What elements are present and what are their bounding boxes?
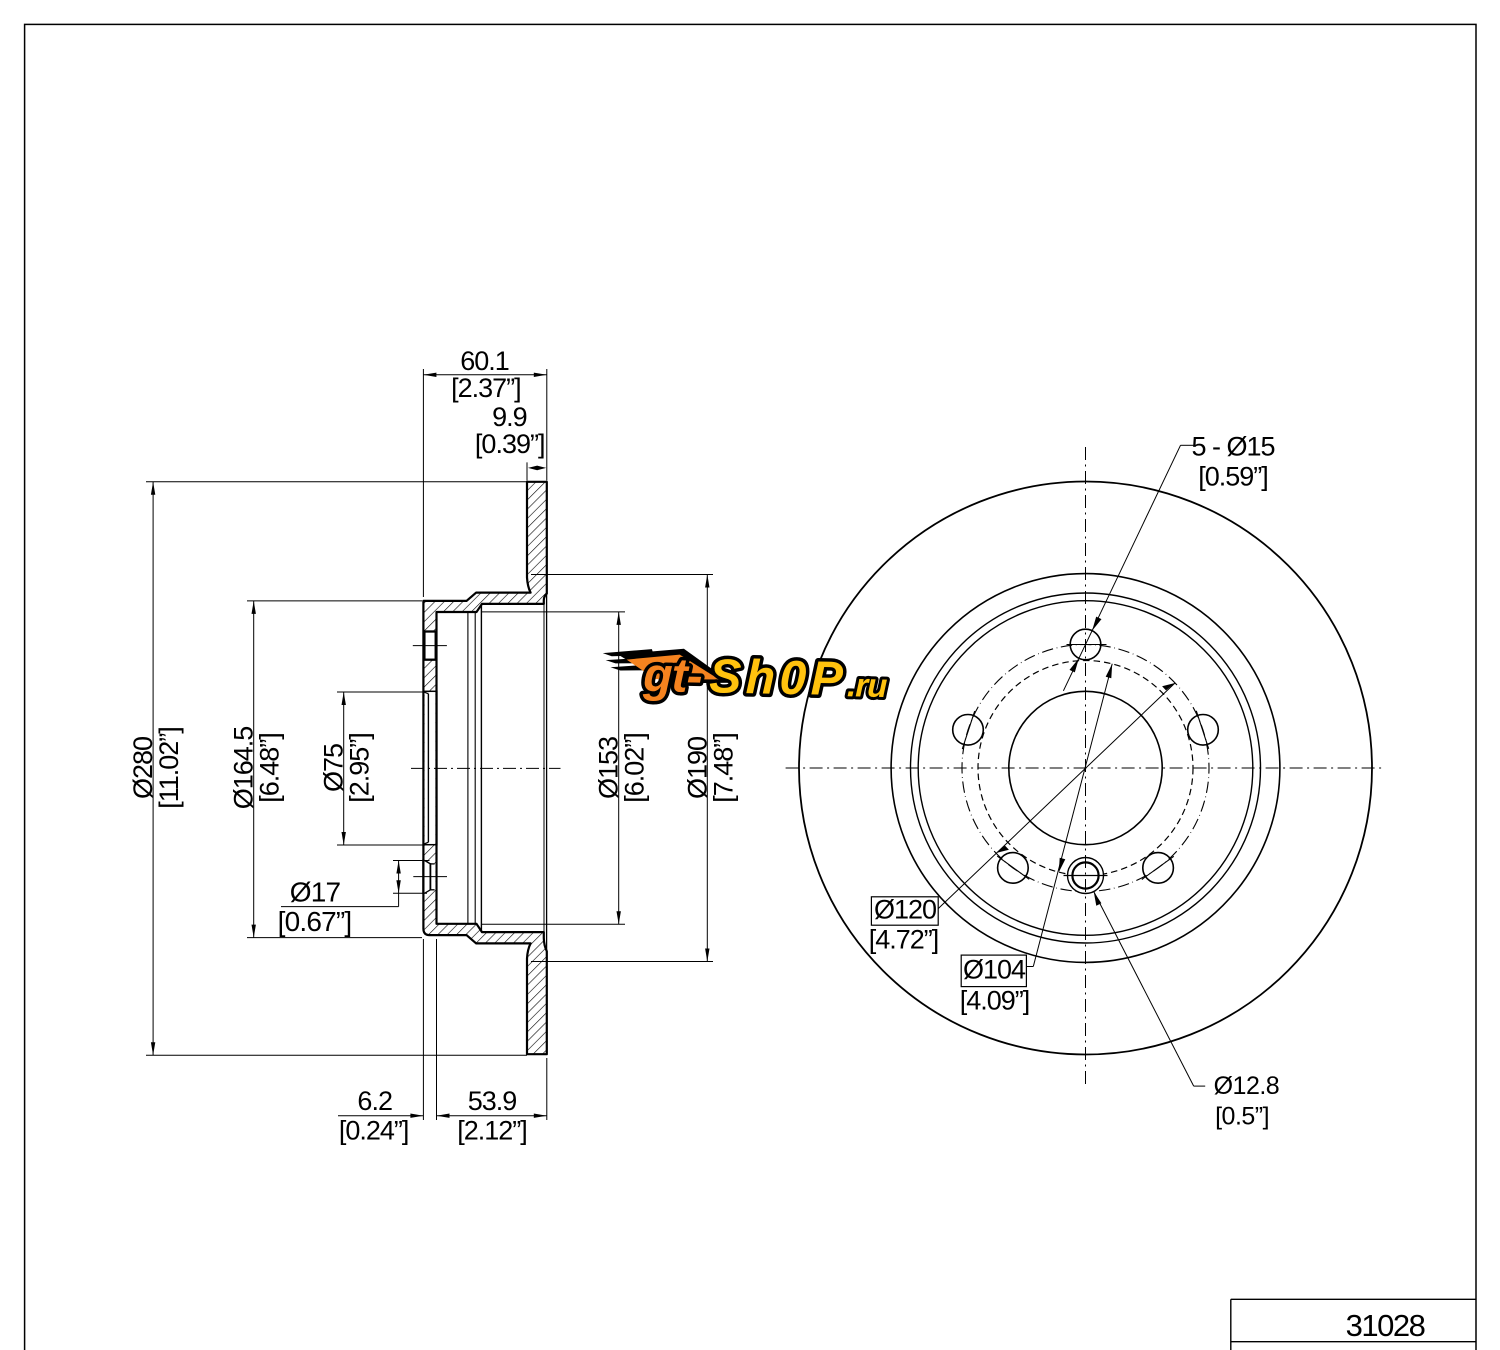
circle Ø104 (dashed) bbox=[978, 661, 1193, 876]
svg-text:[0.67”]: [0.67”] bbox=[278, 906, 352, 937]
svg-text:31028: 31028 bbox=[1346, 1308, 1425, 1343]
svg-text:6.2: 6.2 bbox=[357, 1086, 392, 1116]
svg-text:Ø17: Ø17 bbox=[290, 877, 341, 908]
bolt circle Ø120 (dash-dot) bbox=[962, 645, 1209, 892]
svg-text:[4.09”]: [4.09”] bbox=[960, 986, 1030, 1016]
dim Ø120 leader bbox=[869, 683, 1175, 955]
dim Ø153 bbox=[481, 612, 650, 924]
svg-text:[0.59”]: [0.59”] bbox=[1198, 462, 1268, 492]
svg-text:[2.37”]: [2.37”] bbox=[451, 373, 521, 403]
disc back projection lines bbox=[544, 594, 547, 952]
dim 60.1 top bbox=[423, 346, 546, 597]
svg-text:53.9: 53.9 bbox=[468, 1086, 517, 1116]
svg-text:Ø104: Ø104 bbox=[963, 955, 1026, 985]
svg-text:Sh0P: Sh0P bbox=[709, 650, 848, 706]
svg-text:5 - Ø15: 5 - Ø15 bbox=[1191, 432, 1274, 462]
dim 6.2 / 53.9 bottom bbox=[338, 939, 547, 1146]
bolt hole center ticks bbox=[962, 645, 1208, 880]
svg-text:[11.02”]: [11.02”] bbox=[154, 727, 184, 809]
svg-text:[6.48”]: [6.48”] bbox=[255, 733, 285, 803]
svg-text:60.1: 60.1 bbox=[460, 346, 509, 376]
svg-text:[0.24”]: [0.24”] bbox=[339, 1116, 409, 1146]
svg-text:Ø120: Ø120 bbox=[874, 895, 936, 925]
hub bore band (section) bbox=[423, 691, 436, 846]
dim Ø280 bbox=[128, 482, 527, 1055]
set screw hole Ø12.8 bbox=[1064, 858, 1108, 894]
logo text gt-shop.ru bbox=[642, 649, 888, 707]
set-screw hole slot (bottom, section) bbox=[413, 860, 447, 895]
svg-text:[7.48”]: [7.48”] bbox=[708, 733, 738, 803]
svg-text:[4.72”]: [4.72”] bbox=[869, 925, 939, 955]
svg-text:[2.12”]: [2.12”] bbox=[457, 1116, 527, 1146]
dim Ø164.5 bbox=[229, 601, 422, 938]
svg-text:9.9: 9.9 bbox=[492, 402, 527, 432]
svg-text:.ru: .ru bbox=[847, 666, 888, 704]
dim Ø17 (set screw hole) bbox=[278, 861, 430, 938]
title block bbox=[1231, 1299, 1476, 1350]
svg-text:Ø12.8: Ø12.8 bbox=[1214, 1072, 1280, 1100]
dim Ø75 bbox=[319, 692, 423, 845]
logo speed lines bbox=[602, 647, 732, 685]
drum interior projection lines bbox=[468, 604, 482, 932]
section centerline bbox=[411, 767, 561, 769]
svg-text:gt-: gt- bbox=[642, 649, 702, 703]
leader Ø12.8 bbox=[1094, 892, 1280, 1131]
dim 9.9 (disc thickness) bbox=[527, 462, 546, 480]
bolt holes 5xØ15 bbox=[953, 629, 1219, 883]
dim Ø190 bbox=[531, 575, 738, 962]
gt-shop.ru logo bbox=[602, 647, 888, 707]
leader 5-Ø15 bbox=[1063, 432, 1274, 691]
front view centerlines bbox=[786, 447, 1386, 1089]
svg-text:[0.5”]: [0.5”] bbox=[1215, 1103, 1269, 1131]
svg-text:[0.39”]: [0.39”] bbox=[475, 429, 545, 459]
section view hatched body bbox=[423, 482, 546, 1054]
dim Ø104 leader bbox=[960, 664, 1112, 1016]
svg-text:[6.02”]: [6.02”] bbox=[620, 733, 650, 803]
svg-text:[2.95”]: [2.95”] bbox=[345, 733, 375, 803]
front view circles bbox=[799, 482, 1372, 1055]
bolt hole slot (top, section) bbox=[413, 632, 447, 660]
